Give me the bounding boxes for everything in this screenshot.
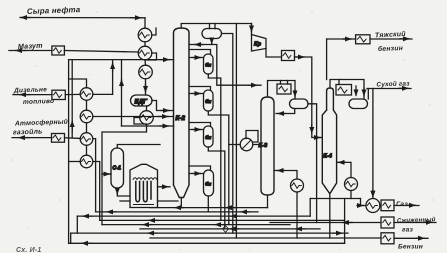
node arrow feed into K-2 bbox=[158, 116, 168, 118]
wire link to C4 inlet bbox=[361, 199, 366, 206]
wire B1 top to left trunk bbox=[69, 79, 87, 88]
cooler diesel box bbox=[52, 90, 65, 99]
wire furnace inlet lower bbox=[120, 200, 130, 202]
wire cooled gas to K-4 feed bbox=[295, 57, 323, 138]
cooler K-4 overhead condenser bbox=[336, 85, 352, 96]
wire LPG out bbox=[394, 222, 436, 224]
wire C3 top loop into K-4 bbox=[337, 162, 351, 177]
svg-text:бензин: бензин bbox=[378, 44, 403, 53]
furnace box bbox=[130, 164, 158, 207]
wire B3 right to down leg bbox=[93, 139, 96, 212]
node arrow C-1 bottoms bbox=[116, 189, 118, 194]
wire second left vertical bbox=[71, 60, 73, 138]
wire stripper1 bottoms bbox=[208, 74, 221, 220]
node arrow lower feed into K-2 bbox=[160, 125, 169, 127]
wire second riser bbox=[121, 60, 123, 126]
node arrow K-3 feed bbox=[248, 84, 257, 86]
node dry gas arrow bbox=[399, 87, 408, 89]
side stripper 1 bbox=[204, 54, 214, 74]
side stripper 2 bbox=[204, 90, 214, 111]
svg-text:Газ: Газ bbox=[396, 201, 408, 208]
node R5 arrow bbox=[215, 224, 224, 226]
wire K-3 drum liquid to LPG cooler leg bbox=[308, 104, 317, 223]
wire A2-A3 stub bbox=[144, 60, 147, 65]
node arrows down into K-4 drum bbox=[355, 86, 357, 96]
vessel EDG electric desalter drum bbox=[131, 95, 153, 106]
svg-text:бн: бн bbox=[205, 134, 211, 140]
wire dry gas product line bbox=[367, 88, 411, 90]
node arrow into compressor bbox=[251, 25, 253, 32]
node R6 arrow bbox=[230, 228, 239, 230]
wire top horizontal to K-2 bbox=[69, 59, 174, 61]
wire compressor discharge bbox=[266, 49, 282, 58]
wire benzine out bbox=[394, 237, 428, 239]
wire K-3 drum reflux return bbox=[276, 109, 295, 114]
node R7 left arrow bbox=[148, 232, 157, 234]
node arrow into EDG bbox=[145, 84, 147, 92]
wire reboiler line into K-3 bbox=[229, 144, 261, 146]
wire B4 right to down leg bbox=[93, 162, 100, 221]
heat-exchanger B3 bbox=[80, 133, 93, 146]
vessel C-1 flash drum bbox=[111, 148, 124, 188]
svg-text:Сухой газ: Сухой газ bbox=[376, 79, 410, 88]
wire A1-A2 stub bbox=[144, 42, 146, 46]
cooler stable benzine box bbox=[356, 35, 370, 44]
node R1 mid arrow bbox=[226, 207, 235, 209]
node second riser arrow bbox=[121, 80, 123, 87]
node arrow down K-4 feed leg bbox=[311, 124, 313, 133]
node reflux arrow into K-3 bbox=[278, 113, 285, 115]
node arrow into K-4 bbox=[314, 137, 320, 139]
wire A4 down to C-1 feed bbox=[102, 124, 147, 174]
compressor Kr bbox=[252, 35, 267, 52]
cooler gas product box bbox=[381, 200, 394, 211]
wire benzine bottoms run R8 bbox=[150, 237, 381, 239]
node mazut arrow tip bbox=[16, 50, 26, 52]
side stripper 4 bbox=[204, 170, 214, 196]
cooler compressor discharge box bbox=[282, 51, 295, 61]
wire naphtha to K-3 feed bbox=[212, 45, 261, 86]
heat-exchanger A4 bbox=[140, 111, 154, 125]
wire A1 right stub bbox=[152, 28, 156, 35]
wire C4 to gas box bbox=[380, 205, 381, 207]
svg-text:Дизельне: Дизельне bbox=[13, 86, 47, 94]
wire crude turn down into exchanger stack bbox=[144, 18, 146, 28]
valve on R6 bbox=[223, 226, 229, 233]
wire gas product out bbox=[394, 205, 419, 207]
wire B1 right to riser bbox=[93, 93, 113, 95]
wire K-3 overhead bbox=[268, 81, 296, 100]
node drum down arrow bbox=[211, 40, 213, 44]
wire EDG vapor to K-2 bbox=[152, 101, 174, 111]
wire stripper2 bottoms bbox=[208, 111, 229, 225]
svg-text:бн: бн bbox=[205, 181, 211, 187]
wire mazut line to exchanger A2 bbox=[64, 51, 138, 53]
wire K-2 overhead line to condenser/compressor bbox=[181, 24, 251, 29]
wire diesel product line bbox=[13, 94, 52, 96]
node R1 left arrow bbox=[175, 207, 184, 209]
node arrow into C4 bbox=[357, 205, 363, 207]
svg-text:топливо: топливо bbox=[23, 98, 54, 106]
node arrow into benzine cooler bbox=[343, 38, 351, 40]
node arrow into K-4 side bbox=[339, 161, 346, 163]
wire left stub vertical bbox=[76, 216, 78, 233]
svg-text:С-1: С-1 bbox=[113, 166, 122, 172]
wire ladder row R5 bbox=[102, 224, 290, 226]
heat-exchanger A3 bbox=[139, 65, 153, 79]
wire C-1 overhead bbox=[117, 145, 160, 149]
node arrow into C-1 bbox=[103, 173, 110, 175]
node R3 left arrow bbox=[83, 215, 92, 217]
furnace inner wavy refractory line bbox=[133, 178, 157, 180]
wire C-1 bottoms to furnace bbox=[117, 188, 130, 196]
furnace coil tubes bbox=[136, 182, 140, 202]
wire diesel line to exchanger B1 bbox=[65, 93, 80, 95]
wire C2 bottom down bbox=[296, 192, 298, 238]
heat-exchanger A2 bbox=[138, 46, 152, 60]
wire EDG to A4 bbox=[146, 106, 148, 111]
wire C3 bottom drop bbox=[350, 191, 352, 199]
wire stable benzine line bbox=[327, 38, 356, 40]
svg-text:К-2: К-2 bbox=[176, 116, 186, 122]
wire LPG product run bbox=[270, 222, 381, 224]
wire gasoil line to exchanger B3 bbox=[65, 137, 81, 140]
wire R7 left corner drop bbox=[70, 233, 72, 243]
column K-3 stabilizer bbox=[261, 97, 274, 195]
svg-text:Мазут: Мазут bbox=[18, 41, 44, 51]
svg-text:газ: газ bbox=[402, 227, 413, 234]
wire K-4 overhead bbox=[330, 80, 364, 100]
wire benzine product out bbox=[370, 38, 412, 40]
wire stripper1 vapor return bbox=[189, 50, 211, 55]
wire crude oil feed line bbox=[20, 17, 145, 19]
svg-text:Бензин: Бензин bbox=[398, 244, 423, 251]
wire drum right takeoff down trunk bbox=[222, 34, 233, 234]
wire B3 stub to B2 bbox=[86, 123, 88, 133]
node R3 mid arrow bbox=[231, 215, 240, 217]
wire K-4 bottom cross pipe bbox=[310, 198, 360, 200]
reboiler C1 head box bbox=[246, 131, 258, 143]
column K-2 main atmospheric column bbox=[174, 28, 190, 198]
wire stripper2 vapor return bbox=[189, 87, 211, 91]
wire drum bottom reflux to K-2 bbox=[189, 39, 212, 45]
wire C-1 feed stub bbox=[102, 173, 111, 175]
wire A4 left box stub bbox=[134, 118, 147, 125]
wire K-2 drawoff to stripper3 bbox=[189, 129, 204, 131]
wire x102 trunk lower bbox=[101, 174, 103, 225]
wire A3 to EDG drum bbox=[145, 79, 147, 95]
wire K-3 bottoms bbox=[267, 196, 269, 208]
svg-text:ЕДГ: ЕДГ bbox=[135, 100, 148, 106]
node R6 right arrow bbox=[296, 228, 305, 230]
node arrow into K-3 side bbox=[278, 170, 285, 172]
node benzine out arrow bbox=[400, 38, 409, 40]
wire drop right of K-4 bbox=[344, 199, 346, 244]
node R7 right arrow bbox=[333, 232, 342, 234]
wire B2 right main feed to K-2 bbox=[93, 116, 174, 118]
node gas arrow bbox=[407, 204, 415, 206]
svg-text:Сжиженный: Сжиженный bbox=[397, 216, 436, 224]
wire stripper3 vapor return bbox=[189, 123, 211, 127]
svg-text:К-3: К-3 bbox=[259, 143, 268, 149]
wire gas leg down to final cooler circle bbox=[372, 89, 374, 199]
svg-text:К-4: К-4 bbox=[323, 154, 332, 160]
wire B4 stub to B3 bbox=[86, 145, 88, 155]
wire K-2 drawoff to stripper1 bbox=[189, 57, 204, 59]
node LPG row left arrow bbox=[343, 222, 352, 224]
cooler K-3 overhead condenser bbox=[277, 84, 291, 94]
wire fuel-oil (mazut) product line bbox=[9, 50, 52, 52]
heat-exchanger B1 bbox=[80, 88, 93, 101]
wire K-2 drawoff to stripper2 bbox=[189, 93, 204, 95]
wire C2 top into K-3 bbox=[274, 171, 297, 180]
svg-text:Сх. И-1: Сх. И-1 bbox=[16, 247, 42, 253]
wire stripper4 bottoms bbox=[207, 196, 209, 212]
node arrow after cooler bbox=[296, 56, 304, 58]
vessel reflux drum E-1 bbox=[202, 29, 222, 39]
svg-text:Тяжский: Тяжский bbox=[375, 30, 407, 40]
wire K-4 bottoms down to benzine run bbox=[329, 193, 331, 238]
wire K-4 drum gas up to dry gas line bbox=[367, 89, 369, 100]
node R2 left arrow bbox=[107, 211, 116, 213]
node up arrow on second vertical bbox=[71, 121, 73, 131]
svg-text:Кр: Кр bbox=[254, 42, 262, 48]
svg-text:Атмосферный: Атмосферный bbox=[14, 118, 68, 128]
svg-text:газойль: газойль bbox=[13, 127, 43, 136]
node LPG arrow bbox=[424, 221, 432, 223]
node benzine arrow bbox=[416, 237, 424, 239]
wire left outer vertical trunk bbox=[68, 60, 70, 244]
heat-exchanger A1 bbox=[138, 28, 152, 42]
wire furnace transfer line to K-2 bbox=[158, 186, 171, 188]
side stripper 3 bbox=[204, 126, 214, 147]
wire drum inlet stubs bbox=[210, 24, 216, 29]
wire ladder row R7 bbox=[71, 232, 348, 234]
reboiler C1 circle with slash bbox=[240, 138, 253, 151]
cooler mazut box bbox=[52, 46, 65, 55]
wire drop to ladder R3 bbox=[309, 199, 311, 217]
cooler benzine product box bbox=[381, 233, 394, 244]
node arrow EDG vapor into K-2 bbox=[161, 110, 169, 112]
svg-text:бн: бн bbox=[205, 98, 211, 104]
node arrow down into K-3 drum bbox=[294, 90, 296, 97]
vessel K-3 reflux drum bbox=[290, 99, 309, 109]
heat-exchanger C2 at K-3 bottom bbox=[291, 179, 304, 192]
svg-text:Сыра нефта: Сыра нефта bbox=[27, 5, 81, 16]
heat-exchanger B4 bbox=[80, 155, 93, 168]
node R4 left arrow bbox=[149, 219, 158, 221]
node arrow furnace to K-2 bbox=[161, 186, 168, 188]
wire B4 left to outer trunk bbox=[69, 161, 81, 163]
node reflux arrow bbox=[195, 44, 203, 46]
cooler LPG product box bbox=[381, 217, 394, 228]
node arrow into K-2 top feed bbox=[160, 59, 169, 61]
node crude arrow right bbox=[131, 17, 141, 19]
wire ladder row R6 bbox=[140, 228, 320, 230]
wire riser from stable line bbox=[326, 39, 328, 80]
node crude arrow left tip bbox=[21, 17, 30, 19]
node riser up arrow bbox=[112, 63, 114, 72]
wire ladder row R3 bbox=[77, 215, 310, 217]
vessel K-4 reflux drum bbox=[349, 99, 368, 109]
wire ladder row R2 bbox=[96, 211, 258, 213]
heat-exchanger B2 bbox=[80, 110, 93, 123]
node R9 left arrow bbox=[82, 242, 91, 244]
wire atmospheric gasoil product line bbox=[12, 137, 52, 139]
wire ladder row R4 bbox=[100, 219, 345, 221]
node R5 left arrow bbox=[143, 224, 152, 226]
wire lower feed line into K-2 bbox=[122, 125, 174, 127]
wire B2 stub to B1 bbox=[86, 100, 88, 110]
column K-4 second stabilizer bbox=[322, 88, 336, 193]
wire ladder row R1 bbox=[150, 207, 268, 209]
wire overhead gas trunk down bbox=[235, 24, 237, 239]
node diesel arrow tip bbox=[20, 94, 30, 96]
wire K-2 drawoff to stripper4 bbox=[189, 173, 204, 175]
wire furnace lower right line bbox=[158, 200, 179, 202]
wire stripper4 vapor return bbox=[189, 166, 211, 170]
wire stripper3 bottoms bbox=[208, 147, 225, 229]
node gasoil arrow tip bbox=[19, 137, 29, 139]
heat-exchanger C4 final gas cooler bbox=[366, 199, 380, 213]
svg-text:бн: бн bbox=[205, 62, 211, 68]
wire riser from diesel HX up bbox=[112, 60, 114, 95]
heat-exchanger C3 at K-4 bbox=[345, 178, 358, 191]
cooler gasoil box bbox=[52, 134, 65, 143]
node arrow down into C4 bbox=[372, 190, 374, 197]
wire bottom row R9 bbox=[69, 242, 345, 244]
wire K-2 bottoms outlet bbox=[180, 198, 182, 208]
wire A2 right box stub bbox=[145, 53, 157, 60]
node R2 mid arrow bbox=[241, 211, 250, 213]
